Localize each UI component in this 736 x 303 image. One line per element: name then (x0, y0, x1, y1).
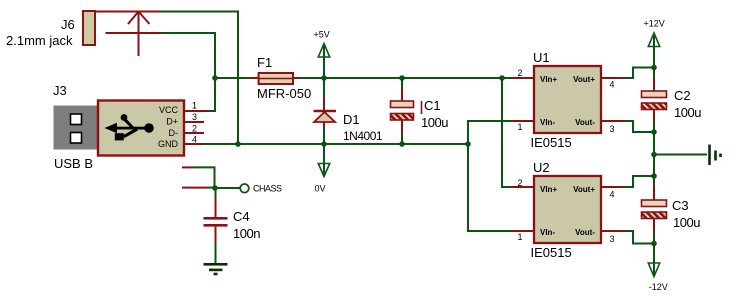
wire to CHASS terminal (215, 187, 240, 189)
svg-text:F1: F1 (257, 55, 272, 70)
power -12V arrow (648, 244, 659, 277)
svg-text:VIn+: VIn+ (540, 75, 557, 84)
svg-text:U2: U2 (533, 160, 550, 175)
svg-text:100u: 100u (421, 115, 448, 130)
svg-text:4: 4 (192, 135, 197, 145)
svg-text:+5V: +5V (314, 30, 330, 40)
wire GND rail (204, 143, 468, 145)
USB trident icon (105, 114, 154, 140)
USB pin 2 stub (184, 132, 204, 134)
node junction at 215,78 (212, 75, 218, 81)
J6 pin ring (red) (106, 32, 162, 34)
svg-text:Vout-: Vout- (575, 228, 595, 237)
diode D1 (314, 78, 337, 144)
node junction at 654,243.5 (651, 241, 657, 247)
svg-text:2: 2 (517, 178, 522, 188)
U1 pin 2 stub (512, 77, 534, 79)
svg-text:3: 3 (609, 234, 614, 244)
capacitor C1 (391, 78, 414, 144)
power +5V arrow (318, 44, 329, 79)
svg-text:D1: D1 (343, 112, 360, 127)
svg-text:1: 1 (192, 101, 197, 111)
U2 pin 2 stub (512, 186, 534, 188)
svg-text:GND: GND (158, 139, 179, 149)
svg-text:2: 2 (517, 68, 522, 78)
earth symbol (710, 145, 721, 166)
svg-text:CHASS: CHASS (253, 184, 282, 194)
node junction at 324,144 (321, 141, 327, 147)
USB shield pin stub A (182, 166, 193, 168)
USB pin 3 stub (184, 121, 204, 123)
U1 pin 1 stub (512, 120, 534, 122)
svg-text:VCC: VCC (159, 105, 179, 115)
svg-text:VIn-: VIn- (540, 228, 555, 237)
svg-text:C1: C1 (424, 98, 441, 113)
node junction at 402,144 (399, 141, 405, 147)
wire J6 top to GND rail (160, 12, 238, 145)
capacitor C3 (642, 176, 667, 244)
svg-text:C4: C4 (233, 209, 250, 224)
svg-text:-12V: -12V (649, 282, 668, 292)
svg-text:100u: 100u (673, 215, 700, 230)
svg-text:1: 1 (517, 232, 522, 242)
wire U2 VIn+ feed (502, 78, 512, 187)
capacitor C2 (642, 68, 667, 133)
J6 pin top (red) (95, 11, 160, 13)
node junction at 215,188 (212, 185, 218, 191)
node junction at 502,78 (499, 75, 505, 81)
USB pin 4 stub (184, 143, 204, 145)
node junction at 468,144 (465, 141, 471, 147)
wire C4 to ground (215, 243, 217, 263)
U1 pin 3 stub (601, 120, 623, 122)
USB shield pin stub B (182, 187, 208, 189)
node junction at 654,67.5 (651, 65, 657, 71)
wire J6 ring to VCC (161, 33, 215, 111)
ground symbol (204, 264, 228, 274)
fuse F1 body (259, 73, 293, 84)
svg-text:3: 3 (192, 112, 197, 122)
U2 pin 1 stub (512, 230, 534, 232)
svg-text:100u: 100u (674, 105, 701, 120)
svg-text:C3: C3 (672, 198, 689, 213)
wire rail 132 to 176 (653, 132, 655, 176)
svg-text:VIn-: VIn- (540, 118, 555, 127)
U2 pin 3 stub (601, 230, 623, 232)
wire VCC stub to vertical (208, 110, 217, 112)
svg-text:4: 4 (609, 80, 614, 90)
node junction at 654,176 (651, 173, 657, 179)
node junction at 402,78 (399, 75, 405, 81)
svg-text:D-: D- (169, 128, 179, 138)
USB plug contact square 1 (71, 114, 82, 125)
CHASS terminal circle (240, 184, 249, 193)
svg-text:IE0515: IE0515 (531, 245, 572, 260)
U1 pin 4 stub (601, 77, 623, 79)
regulator U1 body (534, 66, 601, 133)
svg-text:Vout+: Vout+ (573, 185, 595, 194)
capacitor C4 (204, 188, 228, 243)
wire shield A to node (193, 167, 215, 188)
svg-text:1N4001: 1N4001 (343, 129, 383, 143)
wire U1 Vout+ to +12V rail (623, 68, 654, 79)
wire U2 Vout+ to rail (623, 176, 654, 187)
svg-text:J6: J6 (61, 17, 75, 32)
node junction at 654,132 (651, 129, 657, 135)
connector J6 body (83, 11, 95, 45)
wire U2 Vout- to rail (623, 231, 654, 244)
svg-text:U1: U1 (533, 50, 550, 65)
USB connector body (98, 101, 184, 156)
svg-text:IE0515: IE0515 (531, 135, 572, 150)
svg-text:3: 3 (609, 124, 614, 134)
wire VIn- bus (468, 121, 512, 231)
wire to earth (654, 154, 707, 156)
svg-text:4: 4 (609, 190, 614, 200)
svg-text:0V: 0V (315, 183, 326, 193)
svg-text:+12V: +12V (644, 19, 665, 29)
svg-text:100n: 100n (233, 226, 260, 241)
regulator U2 body (534, 176, 601, 243)
wire U1 Vout- to rail (623, 121, 654, 132)
wire +5V rail (300, 77, 512, 79)
USB plug contact square 2 (71, 133, 82, 144)
C1 polarity mark (421, 101, 423, 114)
J6 tip arrow (red) (128, 12, 150, 57)
power +12V arrow (648, 33, 659, 68)
wire +5V rail left (215, 77, 249, 79)
svg-text:J3: J3 (53, 83, 67, 98)
node junction at 324,78 (321, 75, 327, 81)
svg-text:Vout-: Vout- (575, 118, 595, 127)
svg-text:VIn+: VIn+ (540, 185, 557, 194)
USB pin 1 stub (184, 110, 208, 112)
power 0V arrow (318, 144, 329, 177)
U2 pin 4 stub (601, 186, 623, 188)
svg-text:C2: C2 (674, 88, 691, 103)
svg-text:2: 2 (192, 124, 197, 134)
node junction at 654,154.5 (651, 152, 657, 158)
svg-text:D+: D+ (166, 117, 178, 127)
wire shield B to node (208, 187, 216, 189)
svg-text:MFR-050: MFR-050 (257, 86, 311, 101)
fuse F1 left lead (249, 77, 259, 79)
svg-text:USB B: USB B (54, 156, 93, 171)
svg-text:Vout+: Vout+ (573, 75, 595, 84)
USB plug metal shell (54, 106, 99, 150)
svg-text:1: 1 (517, 122, 522, 132)
svg-text:2.1mm jack: 2.1mm jack (6, 33, 73, 48)
fuse F1 right lead (293, 77, 300, 79)
node junction at 238,144 (235, 141, 241, 147)
